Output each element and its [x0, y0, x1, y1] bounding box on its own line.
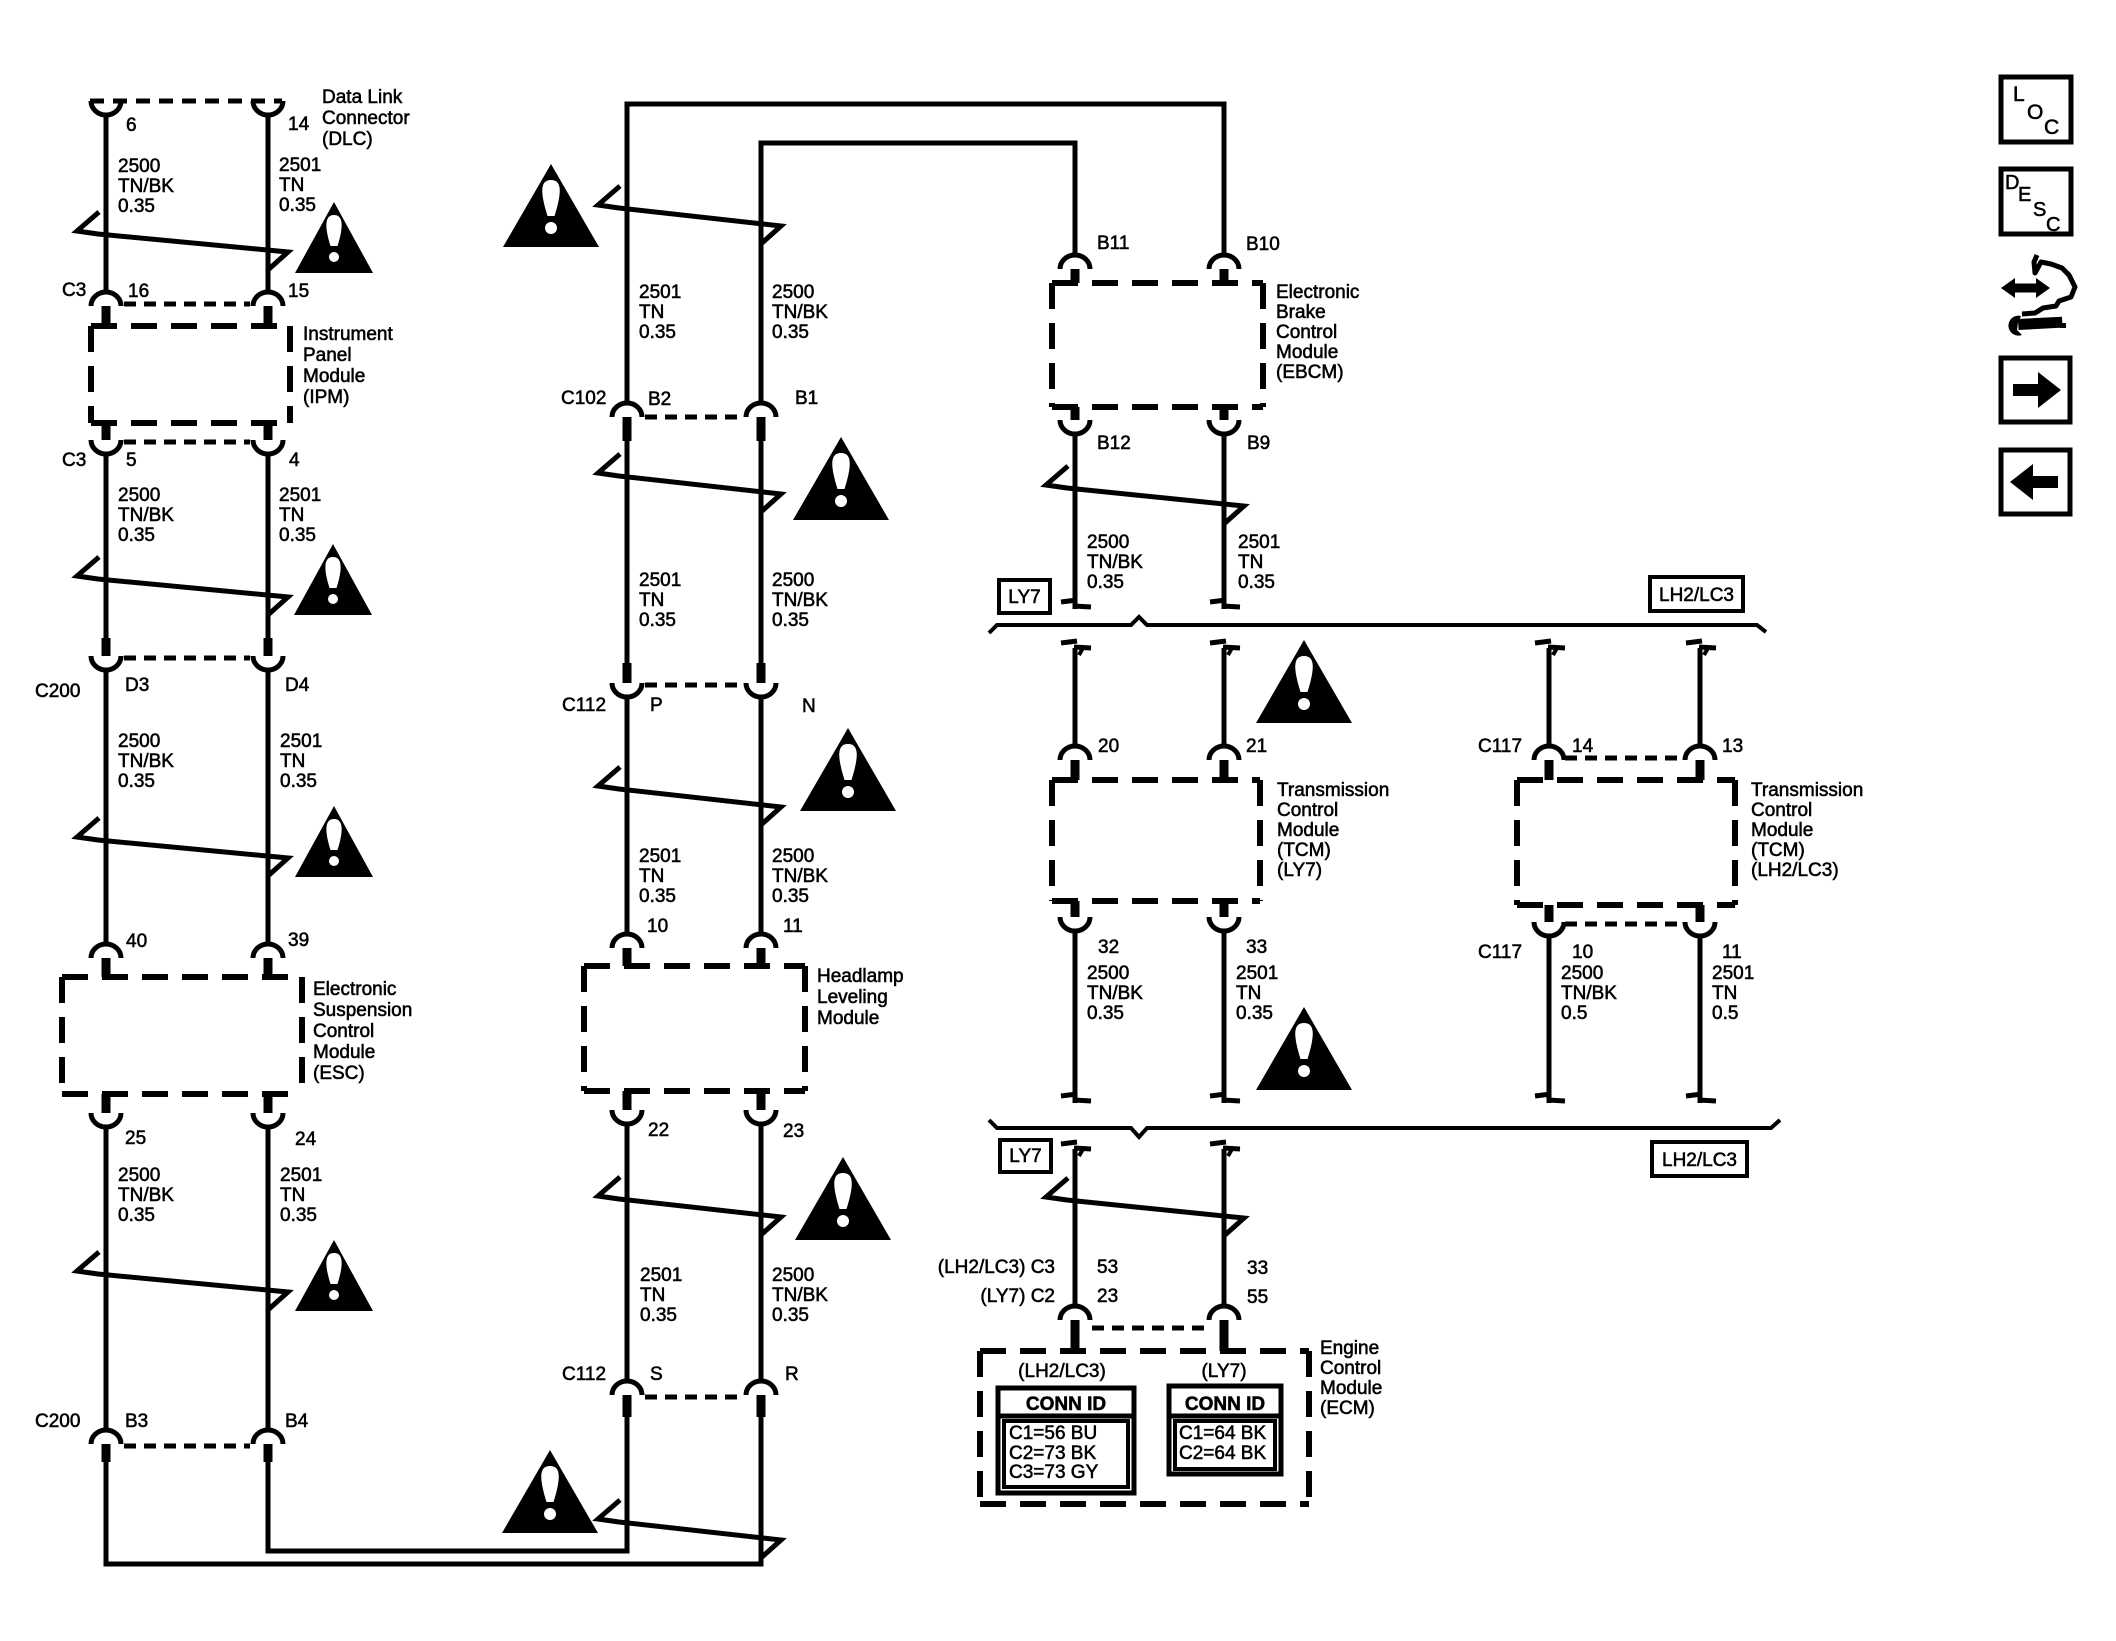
twisted pair symbol: [598, 186, 781, 243]
label pin 53: [1097, 1257, 1118, 1278]
connector C200 dashed line: [124, 656, 250, 661]
wire 2501 ESC 24 to C200 B4: [266, 1127, 271, 1430]
svg-text:2500: 2500: [772, 570, 814, 591]
warning triangle: [503, 164, 599, 247]
svg-text:TN/BK: TN/BK: [1087, 552, 1143, 573]
svg-text:Leveling: Leveling: [817, 987, 888, 1008]
ECM connector dashed line: [1092, 1326, 1208, 1331]
connector C200 pin B4 terminal: [253, 1430, 283, 1462]
wire label 2501 TN 0.35: [279, 485, 321, 546]
twisted pair symbol: [77, 818, 288, 875]
svg-text:B2: B2: [648, 389, 671, 410]
svg-text:11: 11: [783, 916, 803, 937]
svg-text:33: 33: [1246, 937, 1267, 958]
twisted pair symbol: [77, 212, 288, 269]
pin 10 terminal: [612, 934, 642, 966]
svg-text:C3: C3: [62, 450, 86, 471]
svg-text:TN/BK: TN/BK: [118, 1185, 174, 1206]
label pin 6: [126, 115, 137, 136]
svg-text:TN/BK: TN/BK: [1561, 983, 1617, 1004]
svg-text:0.5: 0.5: [1712, 1003, 1738, 1024]
svg-text:(LY7): (LY7): [1201, 1361, 1246, 1382]
label C117 lower: [1478, 942, 1522, 963]
svg-text:Module: Module: [1277, 820, 1339, 841]
label pin D4: [285, 675, 310, 696]
label pin 5: [126, 450, 137, 471]
connector C112 dashed line 2: [645, 1395, 743, 1400]
pin 40 terminal: [91, 944, 121, 977]
svg-text:11: 11: [1722, 942, 1742, 963]
label box LY7: [999, 580, 1050, 613]
label pin B4: [285, 1411, 309, 1432]
svg-text:0.35: 0.35: [772, 322, 809, 343]
twisted pair symbol: [77, 557, 288, 614]
pin 22 terminal: [612, 1091, 642, 1124]
svg-text:32: 32: [1098, 937, 1119, 958]
svg-text:LY7: LY7: [1009, 1146, 1041, 1167]
svg-text:TN/BK: TN/BK: [772, 866, 828, 887]
svg-text:Module: Module: [1276, 342, 1338, 363]
svg-text:(LY7) C2: (LY7) C2: [980, 1286, 1055, 1307]
ECM pin terminal left: [1060, 1306, 1090, 1351]
svg-text:10: 10: [1572, 942, 1593, 963]
label pin B3: [125, 1411, 148, 1432]
pin 23 terminal: [746, 1091, 776, 1124]
connector C3 pin 16 terminal: [91, 292, 121, 326]
twisted pair symbol: [1046, 1178, 1244, 1235]
svg-text:2501: 2501: [280, 731, 322, 752]
label C3 lower: [62, 450, 86, 471]
label C112: [562, 695, 606, 716]
svg-text:10: 10: [647, 916, 668, 937]
wire 2501 bus to C117 13: [1698, 648, 1703, 746]
svg-text:(IPM): (IPM): [303, 387, 349, 408]
label pin 14: [1572, 736, 1594, 757]
svg-text:TN: TN: [639, 302, 664, 323]
label pin 20: [1098, 736, 1119, 757]
wire end hook: [1210, 600, 1240, 607]
svg-text:0.35: 0.35: [280, 1205, 317, 1226]
icon wrench: [2008, 316, 2066, 336]
svg-text:2500: 2500: [772, 282, 814, 303]
svg-text:Electronic: Electronic: [313, 979, 396, 1000]
icon hotspot region outline: [2022, 255, 2075, 314]
svg-text:0.35: 0.35: [772, 1305, 809, 1326]
wire end hook: [1061, 1094, 1091, 1101]
label pin N: [802, 696, 816, 717]
wire label 2501 TN 0.35: [279, 155, 321, 216]
label pin 10: [647, 916, 668, 937]
label Transmission Control Module (TCM) (LY7): [1277, 780, 1389, 881]
connector C112 pin R terminal: [746, 1381, 776, 1417]
svg-text:15: 15: [288, 281, 309, 302]
svg-text:Module: Module: [303, 366, 365, 387]
svg-text:0.35: 0.35: [1087, 572, 1124, 593]
svg-text:L: L: [2013, 83, 2025, 106]
svg-text:2500: 2500: [118, 1165, 160, 1186]
label pin D3: [125, 675, 149, 696]
wire end hook: [1210, 1142, 1240, 1156]
warning triangle: [502, 1450, 598, 1533]
bus brace lower: [989, 1120, 1780, 1137]
svg-text:39: 39: [288, 930, 309, 951]
label pin 33: [1247, 1258, 1268, 1279]
svg-text:C117: C117: [1478, 736, 1522, 757]
label pin S: [650, 1364, 663, 1385]
svg-text:B3: B3: [125, 1411, 148, 1432]
pin B11 terminal: [1060, 255, 1090, 283]
svg-text:33: 33: [1247, 1258, 1268, 1279]
svg-text:22: 22: [648, 1120, 669, 1141]
pin 6 terminal cup: [91, 101, 121, 115]
svg-text:2500: 2500: [118, 156, 160, 177]
label C200 lower: [35, 1411, 80, 1432]
connector C112 dashed line: [645, 683, 743, 688]
warning triangle: [800, 728, 896, 811]
svg-text:0.35: 0.35: [639, 322, 676, 343]
label pin 39: [288, 930, 309, 951]
wire end hook: [1210, 641, 1240, 655]
svg-text:0.35: 0.35: [279, 525, 316, 546]
svg-text:2500: 2500: [772, 846, 814, 867]
svg-text:CONN ID: CONN ID: [1026, 1394, 1106, 1415]
label pin B10: [1246, 234, 1280, 255]
svg-text:23: 23: [1097, 1286, 1118, 1307]
warning triangle: [295, 1240, 373, 1311]
wire end hook: [1686, 1094, 1716, 1101]
connector C117 pin 14 terminal: [1534, 746, 1564, 780]
pin 21 terminal: [1209, 746, 1239, 780]
label pin 15: [288, 281, 309, 302]
pin 20 terminal: [1060, 746, 1090, 780]
svg-text:S: S: [650, 1364, 663, 1385]
svg-text:21: 21: [1246, 736, 1267, 757]
label pin 14: [288, 114, 310, 135]
svg-text:0.35: 0.35: [639, 886, 676, 907]
svg-text:2500: 2500: [118, 731, 160, 752]
svg-text:(DLC): (DLC): [322, 129, 373, 150]
pin 14 terminal cup: [253, 101, 283, 115]
svg-text:TN/BK: TN/BK: [772, 590, 828, 611]
module ECM box: [980, 1351, 1309, 1504]
svg-text:B1: B1: [795, 388, 818, 409]
svg-text:Electronic: Electronic: [1276, 282, 1359, 303]
svg-text:TN: TN: [639, 590, 664, 611]
svg-text:(TCM): (TCM): [1277, 840, 1331, 861]
pin B12 terminal: [1060, 407, 1090, 434]
wire 2501 bus to ECM 33/55: [1222, 1149, 1227, 1306]
pin 33 terminal: [1209, 901, 1239, 931]
wire label 2500 TN/BK 0.35: [118, 1165, 174, 1226]
wire 2501 bus to TCM 21: [1222, 648, 1227, 746]
wire 2500 EBCM B12 to LY7 bus: [1073, 434, 1078, 609]
wire 2500 Headlamp 23 to C112 R: [759, 1124, 764, 1381]
icon hotspot double arrow: [2001, 278, 2050, 298]
label pin 23: [783, 1121, 804, 1142]
svg-text:Headlamp: Headlamp: [817, 966, 904, 987]
svg-text:Control: Control: [1277, 800, 1338, 821]
wire label 2501 TN 0.35: [639, 570, 681, 631]
module EBCM box: [1052, 283, 1263, 407]
svg-text:Panel: Panel: [303, 345, 352, 366]
wire label 2500 TN/BK 0.35: [772, 282, 828, 343]
wire label 2500 TN/BK 0.35: [1087, 963, 1143, 1024]
pin 24 terminal: [253, 1094, 283, 1127]
wire 2500 IPM pin5 to C200 D3: [104, 454, 109, 638]
svg-text:C200: C200: [35, 1411, 80, 1432]
wire 2500 C112 N to Headlamp 11: [759, 697, 764, 934]
svg-text:0.35: 0.35: [772, 886, 809, 907]
svg-text:Transmission: Transmission: [1277, 780, 1389, 801]
label pin 11: [783, 916, 803, 937]
wire 2501 C117 11 to bus: [1698, 936, 1703, 1103]
svg-text:TN/BK: TN/BK: [118, 751, 174, 772]
svg-text:0.35: 0.35: [640, 1305, 677, 1326]
label C112 lower: [562, 1364, 606, 1385]
svg-text:B9: B9: [1247, 433, 1270, 454]
svg-text:25: 25: [125, 1128, 146, 1149]
wire label 2500 TN/BK 0.35: [772, 846, 828, 907]
svg-text:TN/BK: TN/BK: [118, 176, 174, 197]
svg-text:0.35: 0.35: [639, 610, 676, 631]
pin 39 terminal: [253, 944, 283, 977]
pin B9 terminal: [1209, 407, 1239, 434]
svg-text:C117: C117: [1478, 942, 1522, 963]
svg-text:(EBCM): (EBCM): [1276, 362, 1344, 383]
label Electronic Suspension Control Module (ESC): [313, 979, 412, 1084]
connector C200 dashed line 2: [124, 1444, 250, 1449]
svg-text:(LH2/LC3) C3: (LH2/LC3) C3: [938, 1257, 1055, 1278]
label box LY7 lower: [1000, 1140, 1051, 1172]
svg-text:Connector: Connector: [322, 108, 410, 129]
label pin 23: [1097, 1286, 1118, 1307]
svg-text:E: E: [2018, 184, 2031, 206]
svg-text:C2=64 BK: C2=64 BK: [1179, 1443, 1266, 1464]
wire 2500 DLC pin6 to IPM pin16: [104, 113, 109, 293]
svg-text:2501: 2501: [280, 1165, 322, 1186]
svg-text:2500: 2500: [1087, 963, 1129, 984]
svg-text:B11: B11: [1097, 233, 1129, 254]
label Electronic Brake Control Module (EBCM): [1276, 282, 1359, 383]
svg-text:24: 24: [295, 1129, 317, 1150]
wire 2501 C112 P to Headlamp 10: [625, 697, 630, 934]
label pin R: [785, 1364, 799, 1385]
label (LH2/LC3) C3: [938, 1257, 1055, 1278]
svg-text:(ESC): (ESC): [313, 1063, 365, 1084]
module ESC box: [62, 977, 302, 1094]
wire 2501 DLC pin14 to IPM pin15: [266, 113, 271, 293]
wire label 2501 TN 0.35: [640, 1265, 682, 1326]
svg-text:D3: D3: [125, 675, 149, 696]
twisted pair symbol: [598, 1177, 781, 1234]
svg-text:TN: TN: [1238, 552, 1263, 573]
connector C117 pin 13 terminal: [1685, 746, 1715, 780]
wire 2501 TCM 33 to bus: [1222, 931, 1227, 1103]
twisted pair symbol: [598, 767, 781, 824]
label Instrument Panel Module (IPM): [303, 324, 393, 408]
svg-text:C3=73 GY: C3=73 GY: [1009, 1462, 1099, 1483]
bus brace upper: [989, 617, 1766, 633]
label Transmission Control Module (TCM) (LH2/LC3): [1751, 780, 1863, 881]
svg-text:2501: 2501: [1238, 532, 1280, 553]
svg-text:TN/BK: TN/BK: [772, 302, 828, 323]
label pin 21: [1246, 736, 1267, 757]
svg-text:2501: 2501: [639, 846, 681, 867]
svg-text:O: O: [2027, 101, 2043, 124]
svg-text:R: R: [785, 1364, 799, 1385]
wire 2501 IPM pin4 to C200 D4: [266, 454, 271, 638]
label pin 13: [1722, 736, 1743, 757]
svg-text:C200: C200: [35, 681, 80, 702]
connector C102 dashed line: [645, 415, 743, 420]
label (LH2/LC3) inside ECM: [1018, 1361, 1106, 1382]
svg-text:LH2/LC3: LH2/LC3: [1662, 1150, 1737, 1171]
label pin B1: [795, 388, 818, 409]
label C117: [1478, 736, 1522, 757]
svg-text:2501: 2501: [279, 155, 321, 176]
svg-text:Engine: Engine: [1320, 1338, 1379, 1359]
wire 2501 C102 B2 to C112 P: [625, 441, 630, 663]
twisted pair symbol: [77, 1252, 288, 1309]
svg-text:TN: TN: [280, 751, 305, 772]
svg-text:LY7: LY7: [1008, 587, 1040, 608]
svg-text:4: 4: [289, 450, 300, 471]
wire label 2501 TN 0.35: [1236, 963, 1278, 1024]
svg-text:2501: 2501: [1712, 963, 1754, 984]
svg-text:2501: 2501: [639, 282, 681, 303]
wire label 2501 TN 0.5: [1712, 963, 1754, 1024]
svg-text:0.35: 0.35: [280, 771, 317, 792]
label C3: [62, 280, 86, 301]
warning triangle: [295, 806, 373, 877]
svg-text:TN: TN: [640, 1285, 665, 1306]
wire label 2500 TN/BK 0.5: [1561, 963, 1617, 1024]
svg-text:2501: 2501: [279, 485, 321, 506]
svg-text:13: 13: [1722, 736, 1743, 757]
table CONN ID (LY7): [1169, 1386, 1281, 1474]
wire 2500 C200 D3 to ESC 40: [104, 670, 109, 944]
svg-text:Module: Module: [1751, 820, 1813, 841]
svg-text:C1=56 BU: C1=56 BU: [1009, 1423, 1097, 1444]
ECM pin terminal right: [1209, 1306, 1239, 1351]
wire 2501 C112 S to C200 B4: [268, 1417, 627, 1551]
icon LOC button: [2001, 77, 2071, 142]
wire label 2500 TN/BK 0.35: [118, 156, 174, 217]
wire end hook: [1535, 641, 1565, 655]
svg-text:TN: TN: [1236, 983, 1261, 1004]
label C102: [561, 388, 606, 409]
pin 32 terminal: [1060, 901, 1090, 931]
wire label 2501 TN 0.35: [280, 1165, 322, 1226]
wire label 2500 TN/BK 0.35: [772, 1265, 828, 1326]
svg-text:C102: C102: [561, 388, 606, 409]
svg-text:2501: 2501: [1236, 963, 1278, 984]
svg-text:D4: D4: [285, 675, 310, 696]
label pin 40: [126, 931, 147, 952]
svg-text:Control: Control: [1751, 800, 1812, 821]
label pin B9: [1247, 433, 1270, 454]
wire 2501 top run to EBCM B10: [627, 104, 1224, 403]
module TCM (LY7) box: [1052, 780, 1260, 901]
svg-text:C2=73 BK: C2=73 BK: [1009, 1443, 1096, 1464]
wire 2501 Headlamp 22 to C112 S: [625, 1124, 630, 1381]
warning triangle: [1256, 640, 1352, 723]
svg-text:0.35: 0.35: [1238, 572, 1275, 593]
label pin B2: [648, 389, 671, 410]
svg-text:B4: B4: [285, 1411, 309, 1432]
connector C117 pin 10 terminal: [1534, 905, 1564, 936]
svg-text:5: 5: [126, 450, 137, 471]
wire 2500 C102 B1 to C112 N: [759, 441, 764, 663]
svg-text:Module: Module: [313, 1042, 375, 1063]
svg-text:2500: 2500: [1561, 963, 1603, 984]
label pin 32: [1098, 937, 1119, 958]
label (LY7) inside ECM: [1201, 1361, 1246, 1382]
svg-text:C3: C3: [62, 280, 86, 301]
svg-text:2500: 2500: [772, 1265, 814, 1286]
svg-text:Module: Module: [1320, 1378, 1382, 1399]
twisted pair symbol: [598, 454, 781, 511]
warning triangle: [295, 202, 373, 273]
svg-text:14: 14: [288, 114, 310, 135]
wire 2500 bus to TCM 20: [1073, 648, 1078, 746]
label C200: [35, 681, 80, 702]
twisted pair symbol: [598, 1500, 781, 1557]
warning triangle: [793, 437, 889, 520]
label pin 16: [128, 281, 149, 302]
label pin 22: [648, 1120, 669, 1141]
svg-text:Brake: Brake: [1276, 302, 1326, 323]
svg-text:N: N: [802, 696, 816, 717]
svg-text:0.35: 0.35: [1087, 1003, 1124, 1024]
label pin 55: [1247, 1287, 1268, 1308]
wire label 2500 TN/BK 0.35: [118, 485, 174, 546]
svg-text:C: C: [2046, 214, 2060, 236]
connector C112 pin N terminal: [746, 663, 776, 697]
svg-text:Control: Control: [1276, 322, 1337, 343]
connector C200 pin D4 terminal: [253, 638, 283, 670]
connector DLC dashed line top: [90, 99, 282, 104]
label box LH2/LC3 lower: [1652, 1142, 1747, 1176]
svg-text:40: 40: [126, 931, 147, 952]
svg-text:(ECM): (ECM): [1320, 1398, 1375, 1419]
label Engine Control Module (ECM): [1320, 1338, 1382, 1419]
svg-text:S: S: [2033, 199, 2046, 221]
wire end hook: [1686, 641, 1716, 655]
wire label 2501 TN 0.35: [280, 731, 322, 792]
pin B10 terminal: [1209, 255, 1239, 283]
svg-text:(LH2/LC3): (LH2/LC3): [1751, 860, 1839, 881]
svg-text:B12: B12: [1097, 433, 1131, 454]
connector C112 pin P terminal: [612, 663, 642, 697]
wire label 2500 TN/BK 0.35: [772, 570, 828, 631]
connector C3 pin 15 terminal: [253, 292, 283, 326]
svg-text:C1=64 BK: C1=64 BK: [1179, 1423, 1266, 1444]
label (LY7) C2: [980, 1286, 1055, 1307]
wire label 2500 TN/BK 0.35: [1087, 532, 1143, 593]
svg-text:LH2/LC3: LH2/LC3: [1659, 585, 1734, 606]
wire end hook: [1061, 641, 1091, 655]
connector C117 dashed line: [1565, 756, 1684, 761]
twisted pair symbol: [1046, 466, 1244, 523]
connector C117 dashed line 2: [1565, 922, 1684, 927]
connector C102 pin B1 terminal: [746, 403, 776, 441]
svg-text:C112: C112: [562, 1364, 606, 1385]
icon prev page button: [2001, 450, 2070, 514]
connector C200 pin B3 terminal: [91, 1430, 121, 1462]
svg-text:0.35: 0.35: [279, 195, 316, 216]
pin 25 terminal: [91, 1094, 121, 1127]
